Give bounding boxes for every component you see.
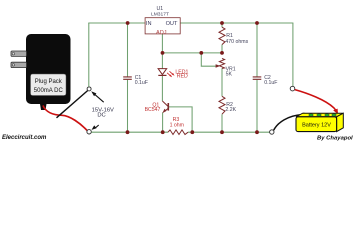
wire ADJ pin down xyxy=(161,34,163,53)
wire black to battery xyxy=(274,115,302,131)
input terminal top (15V) xyxy=(87,87,91,91)
wire black from plug pack to top input terminal xyxy=(57,91,88,118)
transistor Q1 xyxy=(145,101,169,113)
node dot ADJ / R1 bottom xyxy=(220,51,224,55)
svg-text:ADJ: ADJ xyxy=(156,30,167,36)
svg-text:RED: RED xyxy=(177,73,188,79)
plug pack PS1 body xyxy=(11,34,71,110)
resistor R1 xyxy=(219,27,249,45)
resistor R2 xyxy=(219,96,237,114)
wire red to battery xyxy=(295,90,336,111)
svg-text:DC: DC xyxy=(97,113,105,119)
wire Q1 emitter to rail xyxy=(162,112,164,132)
node dot ADJ / wiper xyxy=(199,51,203,55)
node dot rail / emitter xyxy=(161,130,165,134)
node dot rail / C1 xyxy=(126,130,130,134)
svg-text:LM317T: LM317T xyxy=(151,11,169,17)
wire R1 column xyxy=(221,23,223,53)
capacitor C1 xyxy=(123,75,148,86)
svg-text:BC547: BC547 xyxy=(145,107,161,113)
wire C1 branch lower xyxy=(127,80,129,133)
svg-text:Plug Pack: Plug Pack xyxy=(35,79,63,85)
plug pack prong upper xyxy=(11,51,27,56)
capacitor C2 xyxy=(253,75,278,86)
svg-text:By Chayapol: By Chayapol xyxy=(317,135,353,141)
wire C2 branch lower xyxy=(256,80,258,133)
wire bottom rail xyxy=(91,131,269,133)
wire top rail output side xyxy=(180,22,293,24)
svg-text:5K: 5K xyxy=(226,72,233,78)
wire left vertical input xyxy=(88,23,90,87)
resistor R3 xyxy=(168,117,188,135)
output terminal plus (right top) xyxy=(290,86,295,91)
plug pack label xyxy=(31,74,67,96)
plug pack cable stub xyxy=(40,104,47,110)
node dot top rail / C1 xyxy=(126,21,130,25)
wire C2 branch upper xyxy=(256,23,258,77)
svg-text:Eleccircuit.com: Eleccircuit.com xyxy=(2,135,47,141)
wire LED branch xyxy=(161,53,163,101)
svg-text:Battery 12V: Battery 12V xyxy=(302,122,331,128)
node dot top rail / R1 xyxy=(220,21,224,25)
battery 12V xyxy=(296,113,343,131)
node dot rail / base drop xyxy=(190,130,194,134)
wire top rail input side xyxy=(88,22,145,24)
wire VR1 wiper xyxy=(201,53,216,66)
svg-text:500mA DC: 500mA DC xyxy=(34,88,64,94)
annotation arrow to top terminal xyxy=(94,93,104,102)
node dot top rail / C2 xyxy=(255,21,259,25)
svg-text:OUT: OUT xyxy=(166,21,178,27)
annotation arrow to bottom terminal xyxy=(95,125,98,128)
svg-text:470 ohms: 470 ohms xyxy=(225,39,248,45)
LED LED1 xyxy=(158,69,188,80)
wire ADJ net horizontal xyxy=(162,52,222,54)
wire VR1 to R2 column xyxy=(221,68,223,132)
svg-text:2.2K: 2.2K xyxy=(225,107,236,113)
plug pack prong lower xyxy=(11,62,27,67)
wire red from plug pack xyxy=(43,106,87,131)
svg-text:0.1uF: 0.1uF xyxy=(264,80,277,86)
svg-text:U1: U1 xyxy=(156,6,163,12)
svg-text:IN: IN xyxy=(146,21,152,27)
wire C1 branch upper xyxy=(127,23,129,77)
op-amp U1 LM317T regulator box xyxy=(145,6,180,36)
svg-text:0.1uF: 0.1uF xyxy=(135,80,148,86)
node dot rail / C2 xyxy=(255,130,259,134)
output terminal minus (bottom) xyxy=(270,130,274,134)
wire Q1 base to rail xyxy=(169,107,193,132)
node dot ADJ / LED xyxy=(161,51,165,55)
wire right vertical to output terminal xyxy=(292,23,294,86)
input terminal bottom xyxy=(87,130,91,134)
svg-text:1 ohm: 1 ohm xyxy=(170,122,184,128)
potentiometer VR1 xyxy=(216,58,236,77)
node dot rail / R2 xyxy=(220,130,224,134)
